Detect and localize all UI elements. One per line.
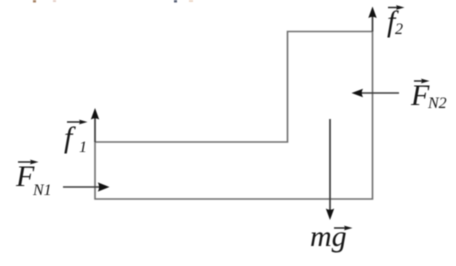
svg-text:F: F: [410, 79, 430, 112]
svg-text:N2: N2: [427, 95, 447, 112]
svg-text:1: 1: [79, 139, 87, 156]
svg-text:mg: mg: [310, 220, 347, 253]
svg-text:N1: N1: [32, 182, 52, 199]
svg-text:F: F: [15, 160, 35, 193]
svg-text:2: 2: [395, 21, 403, 38]
svg-text:f: f: [64, 121, 76, 154]
